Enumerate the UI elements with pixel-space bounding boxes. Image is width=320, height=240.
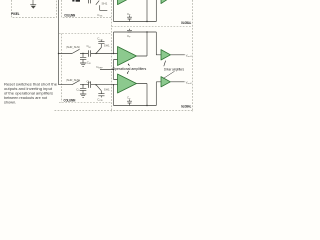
svg-text:COLUMN: COLUMN xyxy=(64,13,75,17)
svg-text:SH1: SH1 xyxy=(104,43,110,47)
svg-text:GLOBAL: GLOBAL xyxy=(181,105,191,109)
svg-text:(SHR_SHS): (SHR_SHS) xyxy=(66,78,80,82)
svg-text:COLUMN: COLUMN xyxy=(64,98,76,102)
svg-text:Operational amplifiers: Operational amplifiers xyxy=(112,67,146,71)
svg-text:SH1: SH1 xyxy=(102,2,108,6)
svg-text:GLOBAL: GLOBAL xyxy=(181,21,191,25)
svg-text:shown.: shown. xyxy=(4,100,16,105)
svg-text:(SHR_SHS): (SHR_SHS) xyxy=(66,45,80,49)
svg-text:PIXEL: PIXEL xyxy=(11,12,20,16)
svg-text:Driver amplifiers: Driver amplifiers xyxy=(164,67,184,71)
svg-text:SH1: SH1 xyxy=(104,87,110,91)
